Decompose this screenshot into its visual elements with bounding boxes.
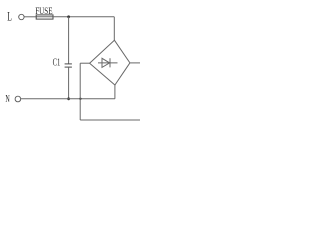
junction node A bbox=[67, 15, 70, 18]
wire N to bridge bottom bbox=[21, 98, 115, 100]
wire corner down to bridge top vertex bbox=[113, 17, 115, 41]
wire fuse to corner bbox=[53, 16, 114, 18]
wire left vertical down bbox=[79, 63, 81, 120]
diode symbol inside bridge bbox=[98, 58, 118, 67]
wire L to fuse bbox=[24, 16, 36, 18]
svg-text:FUSE: FUSE bbox=[35, 6, 53, 16]
svg-text:N: N bbox=[5, 93, 10, 105]
wire C1 down to node B bbox=[68, 67, 70, 99]
wire bridge bottom vertex down to N wire bbox=[114, 85, 116, 99]
wire bridge right vertex stub bbox=[130, 62, 140, 64]
bridge rectifier D1 diamond bbox=[90, 40, 130, 85]
svg-text:C1: C1 bbox=[53, 58, 61, 69]
svg-text:L: L bbox=[7, 10, 12, 24]
capacitor C1 bbox=[65, 64, 72, 67]
terminal L bbox=[19, 14, 24, 19]
terminal N bbox=[15, 96, 21, 102]
wire node A down to C1 bbox=[68, 17, 70, 64]
junction node B bbox=[67, 97, 70, 100]
fuse element bbox=[36, 15, 53, 19]
wire bottom rail bbox=[80, 119, 140, 121]
junction on N wire at left vertical bbox=[79, 98, 81, 100]
wire bridge left vertex stub bbox=[80, 62, 89, 64]
